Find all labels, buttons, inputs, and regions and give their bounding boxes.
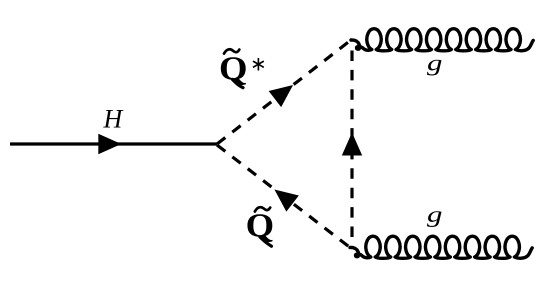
svg-text:g: g — [427, 51, 442, 76]
svg-text:H: H — [103, 105, 124, 134]
svg-text:g: g — [427, 202, 442, 227]
svg-text:∗: ∗ — [250, 54, 267, 76]
